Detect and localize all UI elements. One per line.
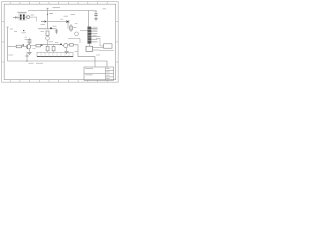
border frame outer	[2, 2, 119, 83]
label X1	[18, 11, 27, 13]
label R8	[49, 41, 54, 43]
node E	[41, 44, 43, 46]
label IN	[10, 28, 13, 30]
transistor Q1	[27, 16, 30, 19]
label GND	[29, 62, 34, 64]
capacitor C2	[94, 14, 97, 16]
ground C2	[94, 19, 98, 21]
label D1 value	[60, 18, 63, 20]
label C1	[41, 24, 46, 26]
wire Q4 to right	[73, 45, 95, 67]
resistor R9	[52, 45, 55, 53]
transistor Q3	[26, 45, 30, 49]
label NET4	[96, 54, 100, 56]
wire bottom bus	[8, 61, 107, 67]
wire J1 bottom	[89, 44, 91, 47]
wire branch to C2	[89, 11, 97, 14]
node C	[50, 27, 52, 29]
transistor Q2	[46, 36, 50, 40]
resistor R6	[28, 38, 31, 45]
label R6	[25, 39, 29, 41]
label R1	[31, 14, 35, 16]
wire U2 out	[99, 50, 114, 52]
junction C4-bus	[26, 60, 27, 61]
capacitor C4	[26, 52, 29, 61]
label +12V	[71, 14, 76, 16]
transistor Q5	[75, 32, 79, 36]
J1 pins	[91, 28, 98, 42]
label D1	[64, 15, 69, 17]
resistor R10	[68, 44, 73, 47]
title block	[84, 67, 114, 80]
connector J2	[86, 46, 93, 51]
resistor R11	[70, 24, 73, 32]
wire mid-low rail	[42, 44, 62, 46]
wire VCC riser	[47, 8, 49, 28]
label PWR	[9, 54, 14, 56]
node B	[23, 30, 24, 31]
wire to U2	[96, 38, 104, 46]
label VREF	[53, 25, 57, 27]
wire mid rail	[38, 28, 57, 30]
label R9	[55, 42, 59, 44]
label R4	[41, 31, 45, 33]
label Q5 net	[25, 36, 28, 38]
wire Q1 out	[30, 17, 37, 21]
label Q3 pin	[33, 48, 36, 50]
node F	[60, 43, 62, 45]
diode D1	[48, 20, 69, 29]
border frame inner	[4, 4, 115, 79]
ground Q4	[65, 48, 69, 54]
resistor R7	[31, 44, 41, 47]
connector J1	[88, 27, 92, 44]
wire Q2 emitter	[47, 40, 49, 44]
node A	[47, 14, 48, 15]
resistor R3	[46, 31, 49, 36]
node D	[22, 44, 24, 46]
label R2	[14, 31, 17, 33]
label NET2	[97, 36, 101, 38]
wire top rail	[28, 11, 89, 27]
transistor Q4	[62, 44, 68, 48]
title block text	[85, 69, 109, 79]
label J1	[103, 8, 107, 10]
resistor R5	[8, 45, 26, 48]
capacitor C3	[55, 29, 58, 34]
opto-coupler U1	[13, 14, 27, 21]
border grid ticks	[2, 2, 119, 83]
ground Q3	[27, 49, 31, 55]
label NET1	[22, 32, 27, 34]
label TP1	[53, 7, 61, 9]
label +5V	[75, 51, 78, 53]
terminal strip TB1	[37, 52, 73, 57]
label VCC	[49, 13, 53, 15]
resistor R8	[46, 45, 49, 53]
capacitor C1	[41, 21, 44, 23]
label R11 value	[75, 22, 78, 24]
IC U2	[104, 44, 113, 48]
J2 pins	[93, 48, 104, 51]
label NET3	[36, 62, 43, 64]
label R11	[73, 27, 77, 29]
wire Q5	[68, 39, 80, 43]
wire to J1 pin	[80, 30, 88, 32]
wire left bus	[7, 27, 9, 61]
label C2	[94, 10, 98, 12]
J1 pin labels	[93, 27, 98, 35]
